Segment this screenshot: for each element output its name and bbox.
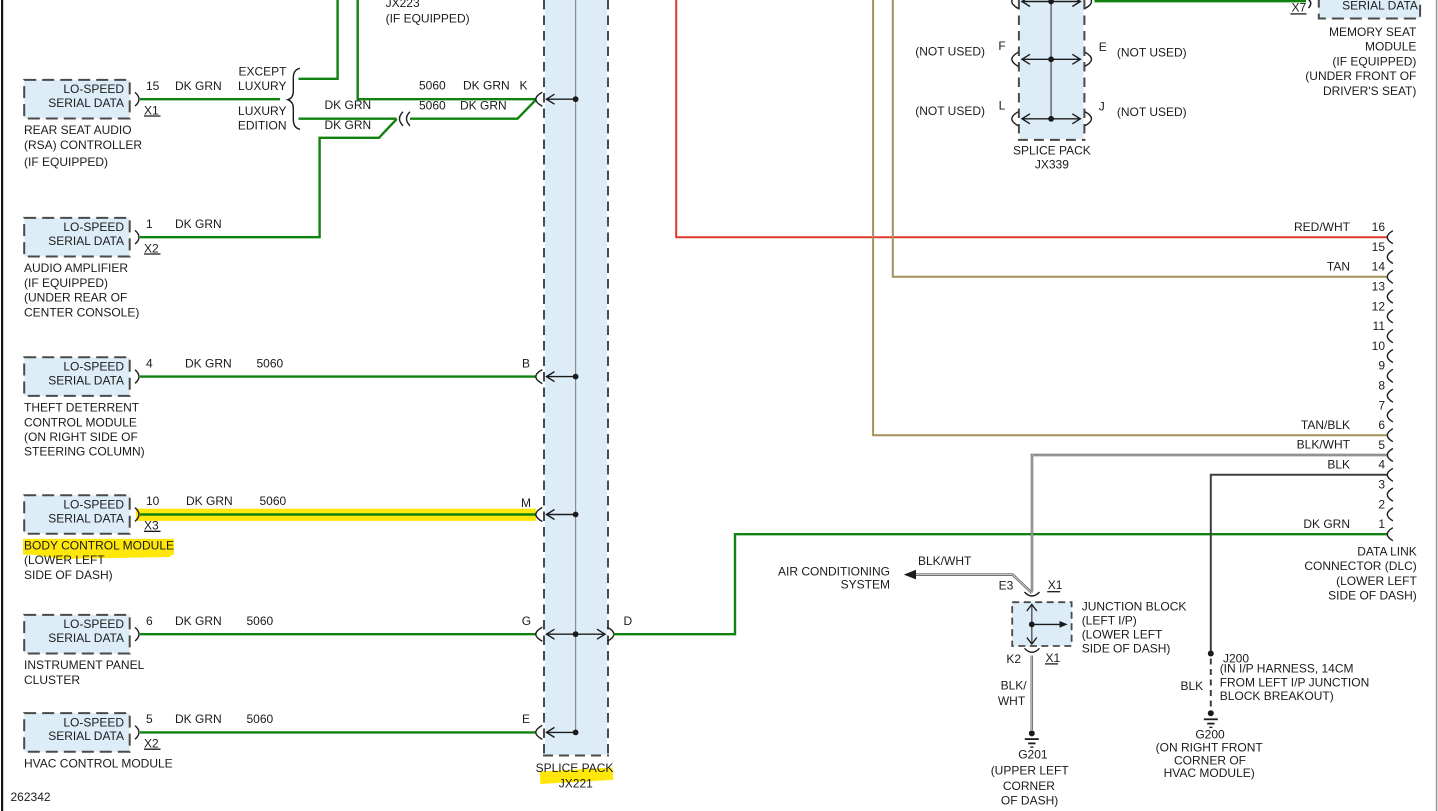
svg-text:X2: X2: [144, 737, 159, 751]
svg-text:DK GRN: DK GRN: [1303, 517, 1350, 531]
svg-text:(NOT USED): (NOT USED): [915, 45, 985, 59]
wire module audio amplifier riser (DK GRN): [140, 119, 397, 237]
DLC pin 3 terminal: [1387, 488, 1393, 501]
svg-text:SERIAL DATA: SERIAL DATA: [1342, 0, 1418, 12]
DLC pin 12 terminal: [1387, 310, 1393, 323]
svg-text:SERIAL DATA: SERIAL DATA: [48, 729, 124, 743]
svg-text:HVAC MODULE): HVAC MODULE): [1164, 766, 1255, 780]
svg-text:BODY CONTROL MODULE: BODY CONTROL MODULE: [24, 539, 174, 553]
DLC pin 2 terminal: [1387, 508, 1393, 521]
svg-text:L: L: [999, 99, 1006, 113]
svg-text:1: 1: [146, 217, 153, 231]
svg-text:HVAC CONTROL MODULE: HVAC CONTROL MODULE: [24, 756, 173, 770]
highlight on JX221 label: [540, 767, 614, 784]
svg-text:CORNER: CORNER: [1003, 779, 1055, 793]
DLC pin 4 terminal: [1387, 468, 1393, 481]
svg-text:JX221: JX221: [559, 776, 593, 790]
splice JX339 top row: [1012, 0, 1019, 9]
svg-text:DK GRN: DK GRN: [460, 98, 507, 112]
svg-text:LUXURY: LUXURY: [238, 79, 286, 93]
svg-text:DK GRN: DK GRN: [325, 118, 372, 132]
wire theft deterrent module to splice B (DK GRN 5060): [140, 375, 536, 377]
svg-text:E: E: [522, 712, 530, 726]
wire DLC pin5 to junction block E3 (BLK/WHT): [1032, 455, 1387, 592]
svg-text:7: 7: [1378, 398, 1385, 412]
svg-text:RED/WHT: RED/WHT: [1294, 220, 1351, 234]
svg-text:DK GRN: DK GRN: [186, 494, 233, 508]
svg-text:X3: X3: [144, 519, 159, 533]
svg-text:BLOCK BREAKOUT): BLOCK BREAKOUT): [1220, 689, 1334, 703]
svg-text:JX223: JX223: [386, 0, 420, 10]
svg-text:(NOT USED): (NOT USED): [915, 104, 985, 118]
svg-text:DK GRN: DK GRN: [175, 79, 222, 93]
svg-text:5060: 5060: [257, 356, 284, 370]
svg-text:J: J: [1099, 99, 1105, 113]
wire luxury-edition branch (DK GRN): [299, 117, 397, 119]
svg-text:CONTROL MODULE: CONTROL MODULE: [24, 415, 137, 429]
svg-text:MEMORY SEAT: MEMORY SEAT: [1329, 25, 1417, 39]
svg-text:(IF EQUIPPED): (IF EQUIPPED): [24, 155, 108, 169]
module theft deterrent control module connector: [135, 370, 139, 384]
svg-text:5060: 5060: [247, 712, 274, 726]
splice JX221 terminal D: [607, 627, 614, 641]
svg-text:13: 13: [1372, 280, 1386, 294]
svg-text:EDITION: EDITION: [238, 119, 287, 133]
inline connector (double arc): [400, 112, 404, 126]
svg-text:DK GRN: DK GRN: [175, 614, 222, 628]
svg-text:SYSTEM: SYSTEM: [841, 577, 890, 591]
svg-text:1: 1: [1378, 517, 1385, 531]
memory seat module box: [1319, 0, 1420, 19]
highlight on BCM circuit wire: [136, 509, 536, 521]
junction block internal bus: [1031, 604, 1033, 645]
svg-text:X1: X1: [144, 103, 159, 117]
svg-text:5060: 5060: [260, 494, 287, 508]
svg-text:(LOWER LEFT: (LOWER LEFT: [1082, 628, 1163, 642]
wire branch to air conditioning system (BLK/WHT): [915, 575, 1032, 593]
DLC pin 13 terminal: [1387, 290, 1393, 303]
svg-text:X7: X7: [1292, 0, 1307, 14]
diagram right border: [1436, 0, 1438, 811]
svg-text:10: 10: [1372, 339, 1386, 353]
svg-text:JX339: JX339: [1035, 158, 1069, 172]
ground G200: [1208, 710, 1214, 716]
splice pack JX339 internal bus: [1050, 0, 1052, 119]
wire J200 to ground G200 (BLK) dashed: [1210, 659, 1212, 708]
svg-text:4: 4: [146, 356, 153, 370]
DLC pin 6 terminal: [1387, 429, 1393, 442]
svg-text:(IF EQUIPPED): (IF EQUIPPED): [24, 276, 108, 290]
wire K2 to ground G201 (BLK/WHT): [1031, 656, 1034, 731]
DLC pin 14 terminal: [1387, 270, 1393, 283]
junction block connector K2: [1025, 648, 1040, 652]
DLC pin 16 terminal: [1387, 231, 1393, 244]
splice pack JX339 body: [1020, 0, 1084, 139]
module rear seat audio (RSA) controller connector: [135, 92, 139, 106]
svg-text:LO-SPEED: LO-SPEED: [63, 82, 124, 96]
svg-text:SIDE OF DASH): SIDE OF DASH): [1328, 589, 1417, 603]
splice pack JX221 internal bus: [575, 0, 577, 732]
wire connector to splice K diagonal (DK GRN 5060): [410, 100, 536, 119]
svg-text:E: E: [1099, 40, 1107, 54]
svg-text:K2: K2: [1006, 652, 1021, 666]
svg-text:CLUSTER: CLUSTER: [24, 673, 80, 687]
svg-text:5: 5: [1378, 438, 1385, 452]
svg-text:SPLICE PACK: SPLICE PACK: [536, 761, 614, 775]
DLC pin 5 terminal: [1387, 449, 1393, 462]
module HVAC control module box: [24, 713, 130, 752]
svg-text:262342: 262342: [11, 790, 51, 804]
svg-text:(NOT USED): (NOT USED): [1117, 46, 1187, 60]
splice JX221 terminal K: [536, 92, 543, 106]
DLC pin 9 terminal: [1387, 369, 1393, 382]
wire to DLC pin14 (TAN): [893, 0, 1388, 277]
svg-text:E3: E3: [999, 579, 1014, 593]
svg-text:DK GRN: DK GRN: [325, 98, 372, 112]
svg-text:15: 15: [146, 79, 160, 93]
svg-text:5060: 5060: [247, 614, 274, 628]
svg-text:FROM LEFT I/P JUNCTION: FROM LEFT I/P JUNCTION: [1220, 676, 1370, 690]
svg-text:LO-SPEED: LO-SPEED: [63, 715, 124, 729]
DLC pin 8 terminal: [1387, 389, 1393, 402]
module instrument panel cluster box: [24, 615, 130, 654]
svg-text:SERIAL DATA: SERIAL DATA: [48, 631, 124, 645]
svg-text:5060: 5060: [419, 98, 446, 112]
wire instrument panel cluster to splice G (DK GRN 5060): [140, 633, 536, 635]
splice JX339 terminal L: [1012, 112, 1019, 126]
svg-text:2: 2: [1378, 497, 1385, 511]
svg-text:SPLICE PACK: SPLICE PACK: [1013, 144, 1091, 158]
svg-text:(IN I/P HARNESS, 14CM: (IN I/P HARNESS, 14CM: [1220, 661, 1354, 675]
ground G201: [1029, 730, 1035, 736]
svg-text:X2: X2: [144, 241, 159, 255]
svg-text:16: 16: [1372, 220, 1386, 234]
svg-text:TAN/BLK: TAN/BLK: [1301, 418, 1350, 432]
wire battery feed to DLC pin16 (RED/WHT): [676, 0, 1387, 237]
module audio amplifier connector: [135, 230, 139, 244]
svg-text:6: 6: [1378, 418, 1385, 432]
wire BCM to splice M (DK GRN 5060): [140, 513, 536, 515]
svg-text:(ON RIGHT SIDE OF: (ON RIGHT SIDE OF: [24, 430, 138, 444]
svg-text:X1: X1: [1048, 578, 1063, 592]
svg-text:9: 9: [1378, 359, 1385, 373]
splice J200: [1208, 651, 1214, 657]
svg-text:(IF EQUIPPED): (IF EQUIPPED): [386, 12, 470, 26]
svg-text:3: 3: [1378, 478, 1385, 492]
arrow to air conditioning system: [904, 570, 916, 580]
DLC pin 15 terminal: [1387, 251, 1393, 264]
DLC pin 1 terminal: [1387, 528, 1393, 541]
DLC pin 7 terminal: [1387, 409, 1393, 422]
svg-text:(NOT USED): (NOT USED): [1117, 105, 1187, 119]
splice JX221 terminal E: [536, 725, 543, 739]
svg-text:STEERING COLUMN): STEERING COLUMN): [24, 445, 145, 459]
svg-text:LO-SPEED: LO-SPEED: [63, 360, 124, 374]
svg-text:BLK: BLK: [1181, 679, 1204, 693]
module instrument panel cluster connector: [135, 627, 139, 641]
svg-text:(RSA) CONTROLLER: (RSA) CONTROLLER: [24, 138, 142, 152]
svg-text:BLK/WHT: BLK/WHT: [1297, 438, 1351, 452]
svg-text:DK GRN: DK GRN: [463, 79, 510, 93]
svg-text:12: 12: [1372, 299, 1386, 313]
svg-text:5060: 5060: [419, 79, 446, 93]
svg-text:SERIAL DATA: SERIAL DATA: [48, 511, 124, 525]
svg-text:F: F: [998, 39, 1005, 53]
svg-text:SIDE OF DASH): SIDE OF DASH): [1082, 641, 1171, 655]
highlight on BODY CONTROL MODULE text: [23, 539, 174, 555]
module body control module box: [24, 495, 130, 534]
splice JX339 terminal E: [1085, 52, 1092, 66]
splice JX339 terminal J: [1085, 112, 1092, 126]
wire DLC pin4 to J200 (BLK): [1211, 475, 1388, 651]
module HVAC control module connector: [135, 726, 139, 740]
svg-text:10: 10: [146, 494, 160, 508]
svg-text:(LOWER LEFT: (LOWER LEFT: [24, 553, 105, 567]
svg-text:OF DASH): OF DASH): [1001, 794, 1058, 808]
svg-text:(LOWER LEFT: (LOWER LEFT: [1336, 574, 1417, 588]
svg-text:DATA LINK: DATA LINK: [1357, 544, 1417, 558]
wire JX339 to memory seat module X7 (DK GRN): [1095, 0, 1307, 2]
module body control module connector: [135, 508, 139, 522]
svg-text:14: 14: [1372, 260, 1386, 274]
module audio amplifier box: [24, 218, 130, 257]
svg-text:SERIAL DATA: SERIAL DATA: [48, 373, 124, 387]
svg-text:WHT: WHT: [998, 694, 1026, 708]
svg-text:AUDIO AMPLIFIER: AUDIO AMPLIFIER: [24, 261, 128, 275]
svg-text:(IF EQUIPPED): (IF EQUIPPED): [1332, 54, 1416, 68]
svg-text:11: 11: [1373, 319, 1386, 333]
splice JX221 terminal B: [536, 370, 543, 384]
junction block (left I/P) box: [1012, 602, 1071, 646]
svg-text:K: K: [519, 79, 527, 93]
svg-text:REAR SEAT AUDIO: REAR SEAT AUDIO: [24, 123, 132, 137]
svg-text:SERIAL DATA: SERIAL DATA: [48, 96, 124, 110]
memory seat module connector X7: [1305, 0, 1311, 8]
svg-text:CONNECTOR (DLC): CONNECTOR (DLC): [1304, 559, 1416, 573]
DLC pin 10 terminal: [1387, 350, 1393, 363]
splice JX339 terminal F: [1012, 52, 1019, 66]
svg-text:(LEFT I/P): (LEFT I/P): [1082, 614, 1137, 628]
svg-text:DK GRN: DK GRN: [175, 712, 222, 726]
svg-text:5: 5: [146, 712, 153, 726]
module rear seat audio (RSA) controller box: [24, 80, 130, 119]
wire splice D to DLC pin1 (DK GRN): [614, 534, 1388, 634]
svg-text:LO-SPEED: LO-SPEED: [63, 498, 124, 512]
svg-text:DK GRN: DK GRN: [175, 217, 222, 231]
wire JX223 drop to splice K (DK GRN 5060): [358, 0, 536, 99]
svg-text:LUXURY: LUXURY: [238, 104, 286, 118]
svg-text:8: 8: [1378, 379, 1385, 393]
svg-text:X1: X1: [1046, 651, 1061, 665]
DLC pin 11 terminal: [1387, 330, 1393, 343]
svg-text:G201: G201: [1018, 748, 1048, 762]
svg-text:B: B: [522, 356, 530, 370]
svg-text:BLK/WHT: BLK/WHT: [918, 554, 972, 568]
wire to DLC pin6 (TAN/BLK): [873, 0, 1387, 435]
svg-text:M: M: [521, 496, 531, 510]
svg-text:BLK: BLK: [1327, 457, 1350, 471]
wire module RSA to options brace (DK GRN): [140, 98, 280, 100]
svg-text:15: 15: [1372, 240, 1386, 254]
svg-text:G200: G200: [1195, 728, 1225, 742]
svg-text:BLK/: BLK/: [1001, 679, 1028, 693]
svg-text:THEFT DETERRENT: THEFT DETERRENT: [24, 401, 140, 415]
svg-text:EXCEPT: EXCEPT: [238, 65, 287, 79]
svg-text:D: D: [624, 614, 633, 628]
junction block feed arrow: [1032, 623, 1061, 625]
svg-text:(UPPER LEFT: (UPPER LEFT: [991, 764, 1070, 778]
svg-text:(UNDER REAR OF: (UNDER REAR OF: [24, 291, 127, 305]
module theft deterrent control module box: [24, 357, 130, 396]
svg-text:MODULE: MODULE: [1365, 40, 1416, 54]
junction block connector E3: [1025, 592, 1040, 596]
splice JX221 terminal M: [536, 508, 543, 522]
wire HVAC module to splice E (DK GRN 5060): [140, 731, 536, 733]
svg-text:G: G: [522, 614, 531, 628]
svg-text:DK GRN: DK GRN: [185, 356, 232, 370]
svg-text:(UNDER FRONT OF: (UNDER FRONT OF: [1305, 69, 1416, 83]
diagram left border: [1, 0, 3, 811]
svg-text:SIDE OF DASH): SIDE OF DASH): [24, 568, 113, 582]
splice JX221 terminal G: [536, 627, 543, 641]
svg-text:LO-SPEED: LO-SPEED: [63, 617, 124, 631]
svg-text:INSTRUMENT PANEL: INSTRUMENT PANEL: [24, 658, 145, 672]
splice pack JX221 body: [545, 0, 607, 755]
svg-text:DRIVER'S SEAT): DRIVER'S SEAT): [1323, 84, 1416, 98]
options brace: [288, 68, 300, 129]
svg-text:SERIAL DATA: SERIAL DATA: [48, 234, 124, 248]
svg-text:6: 6: [146, 614, 153, 628]
wire except-luxury branch to JX223 (DK GRN): [299, 0, 338, 79]
svg-text:CENTER CONSOLE): CENTER CONSOLE): [24, 305, 139, 319]
svg-text:TAN: TAN: [1327, 259, 1350, 273]
svg-text:JUNCTION BLOCK: JUNCTION BLOCK: [1082, 600, 1187, 614]
svg-text:LO-SPEED: LO-SPEED: [63, 220, 124, 234]
svg-text:4: 4: [1378, 458, 1385, 472]
